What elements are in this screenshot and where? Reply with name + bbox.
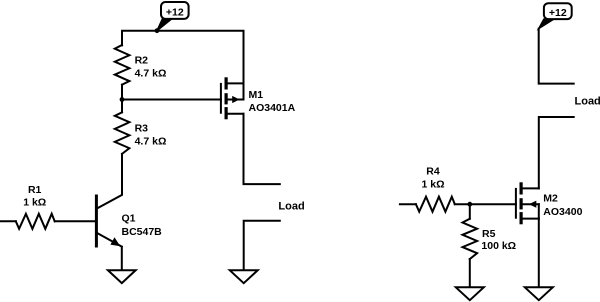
svg-text:Q1: Q1 (122, 213, 136, 225)
mosfet M1 (221, 79, 244, 118)
wire R5 to ground (469, 259, 471, 287)
resistor R5 (463, 219, 478, 259)
svg-text:R3: R3 (135, 123, 149, 135)
wire M1 drain to load (left) (244, 114, 280, 184)
svg-text:R5: R5 (482, 228, 496, 240)
wire load return to ground (left) (244, 221, 280, 270)
wire node A to M1 gate (122, 99, 221, 101)
svg-text:4.7 kΩ: 4.7 kΩ (135, 67, 167, 79)
svg-text:Load: Load (278, 201, 304, 213)
junction dot node B (R4/R5/gate) (467, 202, 472, 207)
power flag +12 (right) (539, 3, 572, 28)
svg-text:+12: +12 (166, 7, 184, 19)
svg-text:M1: M1 (249, 89, 264, 101)
mosfet M2 (516, 184, 539, 223)
resistor R4 (416, 197, 455, 212)
svg-text:100 kΩ: 100 kΩ (481, 240, 516, 252)
transistor Q1 (96, 196, 121, 270)
wire M2 source to ground (538, 219, 540, 288)
wire R1 to Q1 base (55, 220, 97, 222)
svg-text:R1: R1 (28, 184, 42, 196)
wire node A to R3 (121, 100, 123, 113)
svg-text:1 kΩ: 1 kΩ (23, 197, 46, 209)
ground (Q1 emitter) (108, 270, 136, 283)
wire R3 to Q1 collector (96, 154, 122, 209)
resistor R1 (16, 214, 55, 229)
ground (left load return) (230, 270, 258, 283)
ground (M2 source) (525, 287, 553, 300)
svg-text:R2: R2 (135, 55, 149, 67)
svg-text:M2: M2 (543, 193, 558, 205)
svg-text:AO3401A: AO3401A (249, 102, 296, 114)
power flag +12 (left) (157, 2, 189, 31)
wire R4 to node B (455, 203, 470, 205)
wire load to M2 drain (right) (539, 117, 574, 188)
junction dot on +12 rail (155, 28, 160, 33)
wire node B to M2 gate (470, 203, 516, 205)
wire top rail (+12 rail to M1 source) (122, 31, 244, 84)
wire R4 left stub (400, 203, 416, 205)
svg-text:4.7 kΩ: 4.7 kΩ (135, 135, 167, 147)
resistor R2 (115, 45, 130, 85)
resistor R3 (115, 112, 130, 154)
svg-text:+12: +12 (549, 7, 567, 19)
wire node B to R5 (469, 204, 471, 219)
svg-text:BC547B: BC547B (122, 226, 163, 238)
svg-text:1 kΩ: 1 kΩ (421, 179, 444, 191)
ground (R5) (456, 287, 484, 300)
svg-text:Load: Load (575, 96, 600, 108)
wire R2 to node A (121, 85, 123, 100)
junction dot node A (R2/R3/gate) (120, 97, 125, 102)
svg-text:R4: R4 (426, 165, 440, 177)
wire R1 left stub (0, 220, 16, 222)
svg-text:AO3400: AO3400 (543, 206, 582, 218)
wire +12 to load (right) (539, 29, 574, 84)
